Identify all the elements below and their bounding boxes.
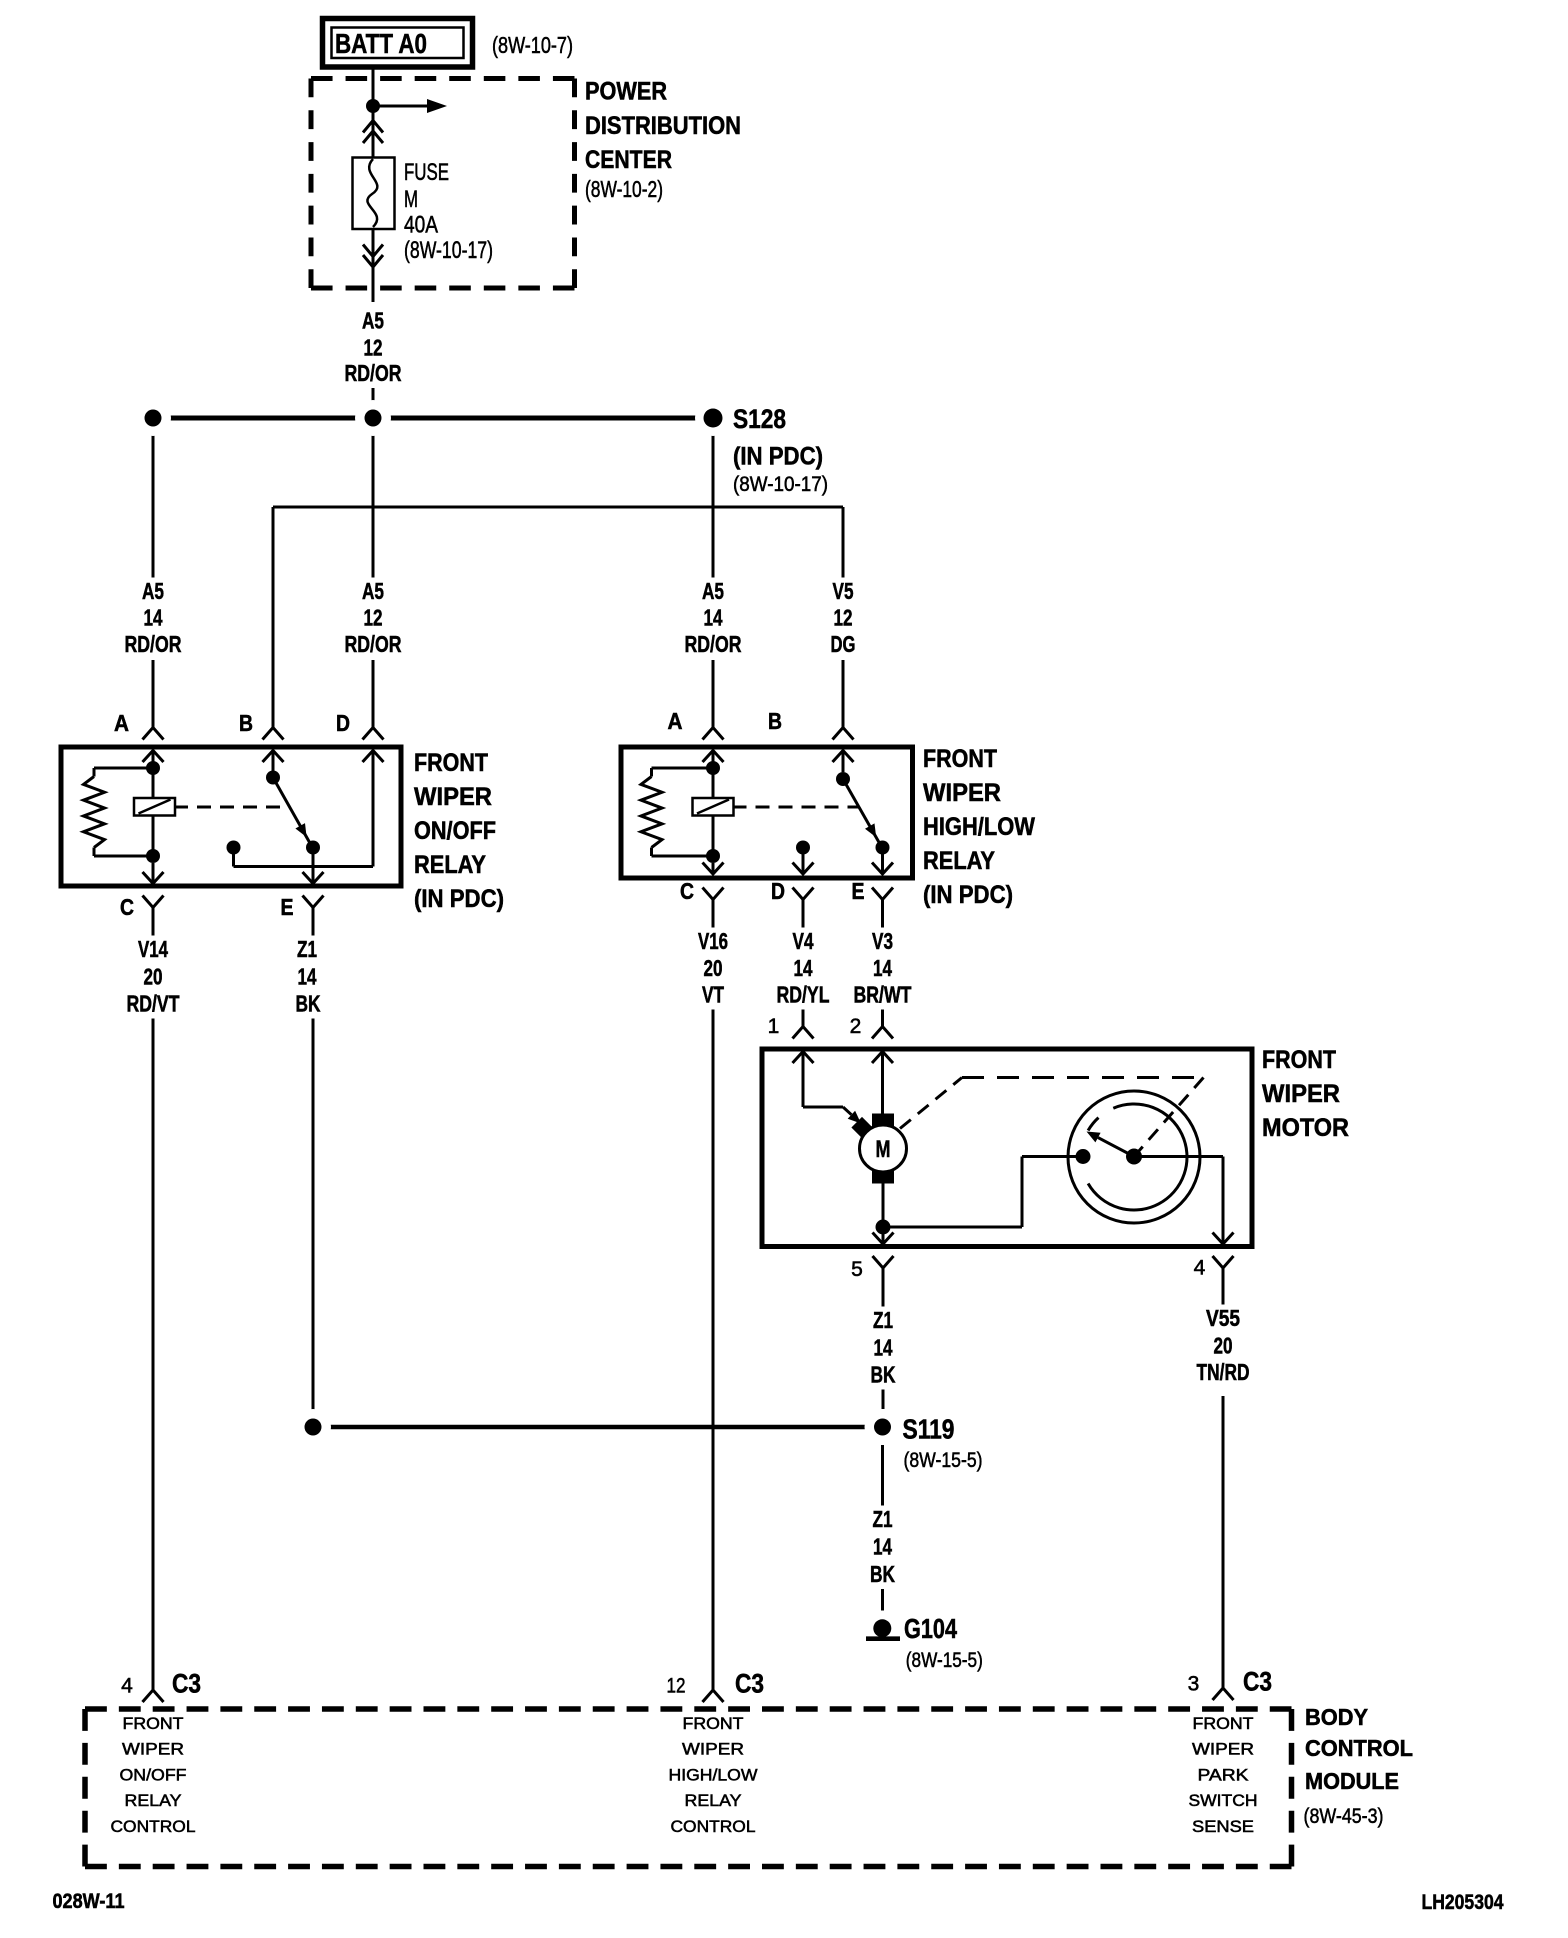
svg-text:(IN PDC): (IN PDC): [414, 885, 504, 913]
park switch contact dot: [1076, 1149, 1091, 1164]
junction node in PDC: [366, 99, 380, 113]
wire bus to relay1 pin A: [152, 418, 155, 728]
relay K2 pin B connector: [768, 708, 854, 772]
svg-text:(8W-15-5): (8W-15-5): [906, 1649, 983, 1672]
wire bus to relay1 pin D: [372, 418, 375, 728]
relay K2 linkage dashes: [734, 806, 859, 809]
svg-text:FRONT: FRONT: [1262, 1046, 1336, 1074]
svg-text:(8W-10-17): (8W-10-17): [404, 237, 493, 264]
label FRONT WIPER MOTOR: [1262, 1046, 1349, 1142]
splice S119 left dot: [295, 1409, 331, 1445]
wire motor to pin 5: [882, 1184, 885, 1245]
relay K2 box FRONT WIPER HIGH/LOW RELAY: [621, 747, 913, 878]
label G104 (8W-15-5): [904, 1613, 983, 1672]
svg-text:ON/OFF: ON/OFF: [120, 1765, 187, 1784]
sheet code LH205304: [1422, 1891, 1504, 1914]
svg-text:C: C: [680, 878, 694, 904]
splice S128 dot: [695, 400, 731, 436]
svg-text:A: A: [668, 708, 683, 734]
wire label V14 20 RD/VT: [127, 936, 180, 1017]
svg-text:TN/RD: TN/RD: [1197, 1359, 1250, 1385]
svg-text:WIPER: WIPER: [923, 779, 1001, 807]
wire label V16 20 VT: [698, 928, 728, 1008]
svg-text:FRONT: FRONT: [1193, 1714, 1254, 1733]
wire motor pin 5 to S119: [882, 1268, 885, 1409]
svg-text:MOTOR: MOTOR: [1262, 1114, 1349, 1142]
wire relay2 C to BCM pin 12: [712, 900, 715, 1691]
bus wire S128: [153, 416, 713, 421]
svg-text:12: 12: [834, 605, 853, 631]
wire bus to relay2 pin A: [712, 418, 715, 728]
relay K2 pin D exit connector: [771, 863, 814, 905]
svg-text:WIPER: WIPER: [682, 1740, 744, 1759]
ground G104: [866, 1619, 900, 1638]
wire label V55 20 TN/RD: [1197, 1305, 1250, 1385]
fuse M 40A: [353, 158, 395, 230]
svg-text:V14: V14: [138, 936, 168, 962]
motor bottom junction: [876, 1220, 891, 1235]
svg-text:WIPER: WIPER: [414, 783, 492, 811]
BCM pin 3 connector C3: [1188, 1667, 1272, 1701]
svg-text:BK: BK: [871, 1362, 896, 1388]
relay K1 pin D connector: [336, 710, 384, 762]
wire relay2 D to motor pin 1: [802, 900, 805, 1027]
relay K1 switch arm: [266, 771, 313, 849]
wire label Z1 14 BK (relay1): [296, 936, 321, 1017]
svg-text:V3: V3: [872, 928, 893, 954]
svg-text:S128: S128: [733, 404, 786, 434]
relay K1 pin B connector: [239, 710, 284, 771]
splice dot center: [355, 400, 391, 436]
svg-text:ON/OFF: ON/OFF: [414, 817, 496, 845]
power distribution center dashed box: [311, 79, 575, 289]
wire label A5 12 RD/OR: [345, 308, 402, 386]
park switch inner ring arcs: [1088, 1104, 1187, 1210]
svg-text:LH205304: LH205304: [1422, 1891, 1504, 1914]
motor pin 1 connector: [768, 1015, 814, 1063]
relay K1 pin E exit connector: [281, 872, 324, 920]
relay K2 pin E exit connector: [852, 863, 894, 905]
svg-text:2: 2: [850, 1015, 862, 1038]
svg-text:14: 14: [794, 955, 813, 981]
label S128 (IN PDC) (8W-10-17): [733, 404, 828, 496]
svg-text:RD/VT: RD/VT: [127, 991, 180, 1017]
splice dot left: [135, 400, 171, 436]
wire motor junction to park switch contact: [883, 1157, 1076, 1228]
svg-text:V16: V16: [698, 928, 728, 954]
svg-text:FRONT: FRONT: [683, 1714, 744, 1733]
svg-text:RELAY: RELAY: [125, 1791, 182, 1810]
BCM pin 12 connector C3: [667, 1669, 765, 1703]
wire relay1 pin B to relay2 pin B: [273, 507, 843, 728]
splice S119 wire: [313, 1425, 883, 1430]
BCM label FRONT WIPER HIGH/LOW RELAY CONTROL: [669, 1714, 758, 1836]
svg-text:FUSE: FUSE: [404, 159, 449, 186]
relay K1 coil top junction: [146, 761, 160, 775]
svg-text:40A: 40A: [404, 212, 438, 239]
relay K1 pin C exit connector: [120, 863, 164, 920]
svg-text:A5: A5: [142, 578, 164, 604]
svg-text:B: B: [768, 708, 782, 734]
motor pin1 internal wire with arrow to brush: [803, 1052, 873, 1139]
svg-text:RD/OR: RD/OR: [345, 631, 402, 657]
park switch outer ring: [1068, 1091, 1200, 1223]
svg-text:20: 20: [1214, 1333, 1233, 1359]
relay K2 pin A connector: [668, 708, 724, 762]
relay K1 linkage dashes: [175, 806, 289, 809]
battery feed box BATT A0: [323, 19, 473, 68]
svg-text:14: 14: [874, 1335, 893, 1361]
motor pin 2 connector: [850, 1015, 893, 1063]
svg-text:CONTROL: CONTROL: [1305, 1735, 1413, 1761]
wire fuse to splice S128: [372, 229, 375, 418]
svg-text:C: C: [120, 894, 134, 920]
wire label V5 12 DG: [831, 578, 856, 657]
svg-text:A: A: [114, 710, 129, 736]
svg-text:HIGH/LOW: HIGH/LOW: [669, 1765, 758, 1784]
svg-text:V5: V5: [833, 578, 854, 604]
relay K1 pin A connector: [114, 710, 164, 762]
svg-text:1: 1: [768, 1015, 780, 1038]
connector chevrons above fuse: [363, 121, 383, 144]
svg-text:RELAY: RELAY: [685, 1791, 742, 1810]
svg-text:(IN PDC): (IN PDC): [923, 881, 1013, 909]
wire relay1 E to splice S119: [312, 908, 315, 1428]
BCM pin 4 connector C3: [121, 1669, 201, 1703]
svg-text:D: D: [336, 710, 350, 736]
svg-text:V55: V55: [1206, 1305, 1240, 1331]
wire BATT to fuse: [372, 69, 375, 158]
arrow to other circuits: [373, 99, 447, 113]
svg-text:BR/WT: BR/WT: [854, 982, 912, 1008]
svg-text:V4: V4: [793, 928, 814, 954]
svg-text:4: 4: [1194, 1257, 1206, 1280]
label FRONT WIPER ON/OFF RELAY (IN PDC): [414, 749, 504, 913]
svg-text:BODY: BODY: [1305, 1704, 1368, 1730]
svg-text:RELAY: RELAY: [923, 847, 995, 875]
park switch pivot: [1126, 1149, 1142, 1165]
svg-text:BK: BK: [296, 991, 321, 1017]
svg-text:4: 4: [121, 1675, 133, 1698]
relay K1 coil bottom junction: [146, 849, 160, 863]
connector chevrons below fuse: [363, 245, 383, 268]
wire label Z1 14 BK (ground leg): [870, 1506, 895, 1587]
reference label (8W-10-7): [492, 32, 573, 58]
motor pin 4 exit connector: [1194, 1233, 1234, 1280]
label POWER DISTRIBUTION CENTER (8W-10-2): [585, 78, 741, 203]
svg-text:Z1: Z1: [297, 936, 317, 962]
svg-text:WIPER: WIPER: [1262, 1080, 1340, 1108]
relay K1 resistor: [84, 768, 154, 856]
motor pin2 internal wire: [881, 1052, 884, 1114]
svg-text:RD/OR: RD/OR: [345, 360, 402, 386]
svg-text:DISTRIBUTION: DISTRIBUTION: [585, 112, 741, 140]
svg-text:SWITCH: SWITCH: [1189, 1791, 1258, 1810]
relay K2 contact to pin E: [876, 841, 890, 875]
svg-text:14: 14: [298, 964, 317, 990]
label FRONT WIPER HIGH/LOW RELAY (IN PDC): [923, 745, 1035, 909]
svg-text:A5: A5: [362, 578, 384, 604]
svg-text:(8W-10-7): (8W-10-7): [492, 32, 573, 58]
svg-text:E: E: [281, 894, 294, 920]
relay K2 coil bottom junction: [706, 849, 720, 863]
wire label Z1 14 BK (pin5): [871, 1307, 896, 1388]
BCM label FRONT WIPER ON/OFF RELAY CONTROL: [111, 1714, 196, 1836]
relay K2 pin C exit connector: [680, 863, 724, 905]
relay K2 switch arm: [836, 772, 883, 849]
svg-text:028W-11: 028W-11: [53, 1890, 125, 1913]
svg-text:C3: C3: [172, 1669, 201, 1699]
svg-text:PARK: PARK: [1198, 1765, 1250, 1784]
front wiper motor box: [762, 1049, 1252, 1247]
svg-text:(8W-45-3): (8W-45-3): [1304, 1805, 1384, 1828]
svg-text:12: 12: [667, 1675, 686, 1698]
svg-text:DG: DG: [831, 631, 856, 657]
svg-text:CONTROL: CONTROL: [671, 1817, 756, 1836]
svg-text:E: E: [852, 878, 865, 904]
svg-text:(IN PDC): (IN PDC): [733, 443, 823, 471]
svg-text:RELAY: RELAY: [414, 851, 486, 879]
label S119 (8W-15-5): [903, 1414, 983, 1473]
svg-text:SENSE: SENSE: [1192, 1817, 1254, 1836]
svg-text:(8W-10-17): (8W-10-17): [733, 473, 828, 496]
relay K1 contact to pin D internal wire: [227, 752, 374, 867]
svg-text:12: 12: [364, 334, 383, 360]
svg-text:FRONT: FRONT: [923, 745, 997, 773]
svg-text:20: 20: [704, 955, 723, 981]
wire label A5 14 RD/OR (left): [125, 578, 182, 657]
svg-text:WIPER: WIPER: [1192, 1740, 1254, 1759]
svg-text:POWER: POWER: [585, 78, 667, 106]
svg-text:20: 20: [144, 964, 163, 990]
svg-text:3: 3: [1188, 1673, 1200, 1696]
svg-text:CONTROL: CONTROL: [111, 1817, 196, 1836]
svg-text:VT: VT: [702, 982, 724, 1008]
relay K2 coil top junction: [706, 761, 720, 775]
body control module dashed box: [85, 1709, 1292, 1867]
relay K2 contact to pin D: [796, 841, 810, 875]
svg-text:G104: G104: [904, 1613, 957, 1644]
splice S119 dot: [865, 1409, 901, 1445]
label BODY CONTROL MODULE (8W-45-3): [1304, 1704, 1414, 1828]
BCM label FRONT WIPER PARK SWITCH SENSE: [1189, 1714, 1258, 1836]
relay K2 coil: [693, 762, 734, 856]
svg-text:WIPER: WIPER: [122, 1740, 184, 1759]
svg-text:HIGH/LOW: HIGH/LOW: [923, 813, 1035, 841]
wire park switch to pin 4: [1134, 1157, 1223, 1245]
motor M armature: [860, 1114, 907, 1184]
svg-text:C3: C3: [735, 1669, 764, 1699]
svg-text:14: 14: [704, 605, 723, 631]
svg-text:B: B: [239, 710, 253, 736]
svg-text:M: M: [404, 186, 418, 213]
park switch linkage dashed: [900, 1078, 1204, 1157]
relay K1 box FRONT WIPER ON/OFF RELAY: [61, 747, 401, 886]
svg-text:FRONT: FRONT: [414, 749, 488, 777]
svg-text:A5: A5: [702, 578, 724, 604]
relay K1 coil: [134, 762, 175, 856]
svg-text:RD/OR: RD/OR: [685, 631, 742, 657]
sheet number 028W-11: [53, 1890, 125, 1913]
wire label A5 12 RD/OR (center): [345, 578, 402, 657]
svg-text:(8W-10-2): (8W-10-2): [585, 176, 663, 202]
park switch wiper arm: [1087, 1132, 1135, 1157]
svg-text:FRONT: FRONT: [123, 1714, 184, 1733]
motor pin 5 exit connector: [851, 1233, 893, 1282]
wire S119 to G104: [881, 1445, 884, 1611]
svg-text:A5: A5: [362, 308, 384, 334]
svg-text:Z1: Z1: [873, 1307, 893, 1333]
wire label V4 14 RD/YL: [777, 928, 830, 1008]
svg-text:12: 12: [364, 605, 383, 631]
relay K2 resistor: [641, 768, 713, 856]
svg-text:Z1: Z1: [873, 1506, 893, 1532]
relay K1 contact to pin E: [306, 841, 320, 884]
svg-text:5: 5: [851, 1258, 863, 1281]
svg-text:S119: S119: [903, 1414, 955, 1445]
svg-text:M: M: [876, 1136, 891, 1163]
wire label V3 14 BR/WT: [854, 928, 912, 1008]
svg-text:BK: BK: [870, 1561, 895, 1587]
svg-text:C3: C3: [1243, 1667, 1272, 1697]
svg-text:D: D: [771, 878, 785, 904]
wire motor pin 4 to BCM pin 3: [1222, 1268, 1225, 1690]
svg-text:(8W-15-5): (8W-15-5): [904, 1449, 983, 1472]
svg-text:14: 14: [873, 955, 892, 981]
wire label A5 14 RD/OR (relay2): [685, 578, 742, 657]
svg-text:14: 14: [144, 605, 163, 631]
svg-text:CENTER: CENTER: [585, 146, 672, 174]
svg-text:14: 14: [873, 1534, 892, 1560]
wire relay2 E to motor pin 2: [881, 900, 884, 1027]
fuse label FUSE M 40A (8W-10-17): [404, 159, 493, 264]
svg-text:RD/YL: RD/YL: [777, 982, 830, 1008]
svg-text:BATT A0: BATT A0: [335, 28, 427, 59]
svg-text:RD/OR: RD/OR: [125, 631, 182, 657]
svg-text:MODULE: MODULE: [1305, 1768, 1399, 1794]
wire relay1 C to BCM pin 4: [152, 908, 155, 1691]
